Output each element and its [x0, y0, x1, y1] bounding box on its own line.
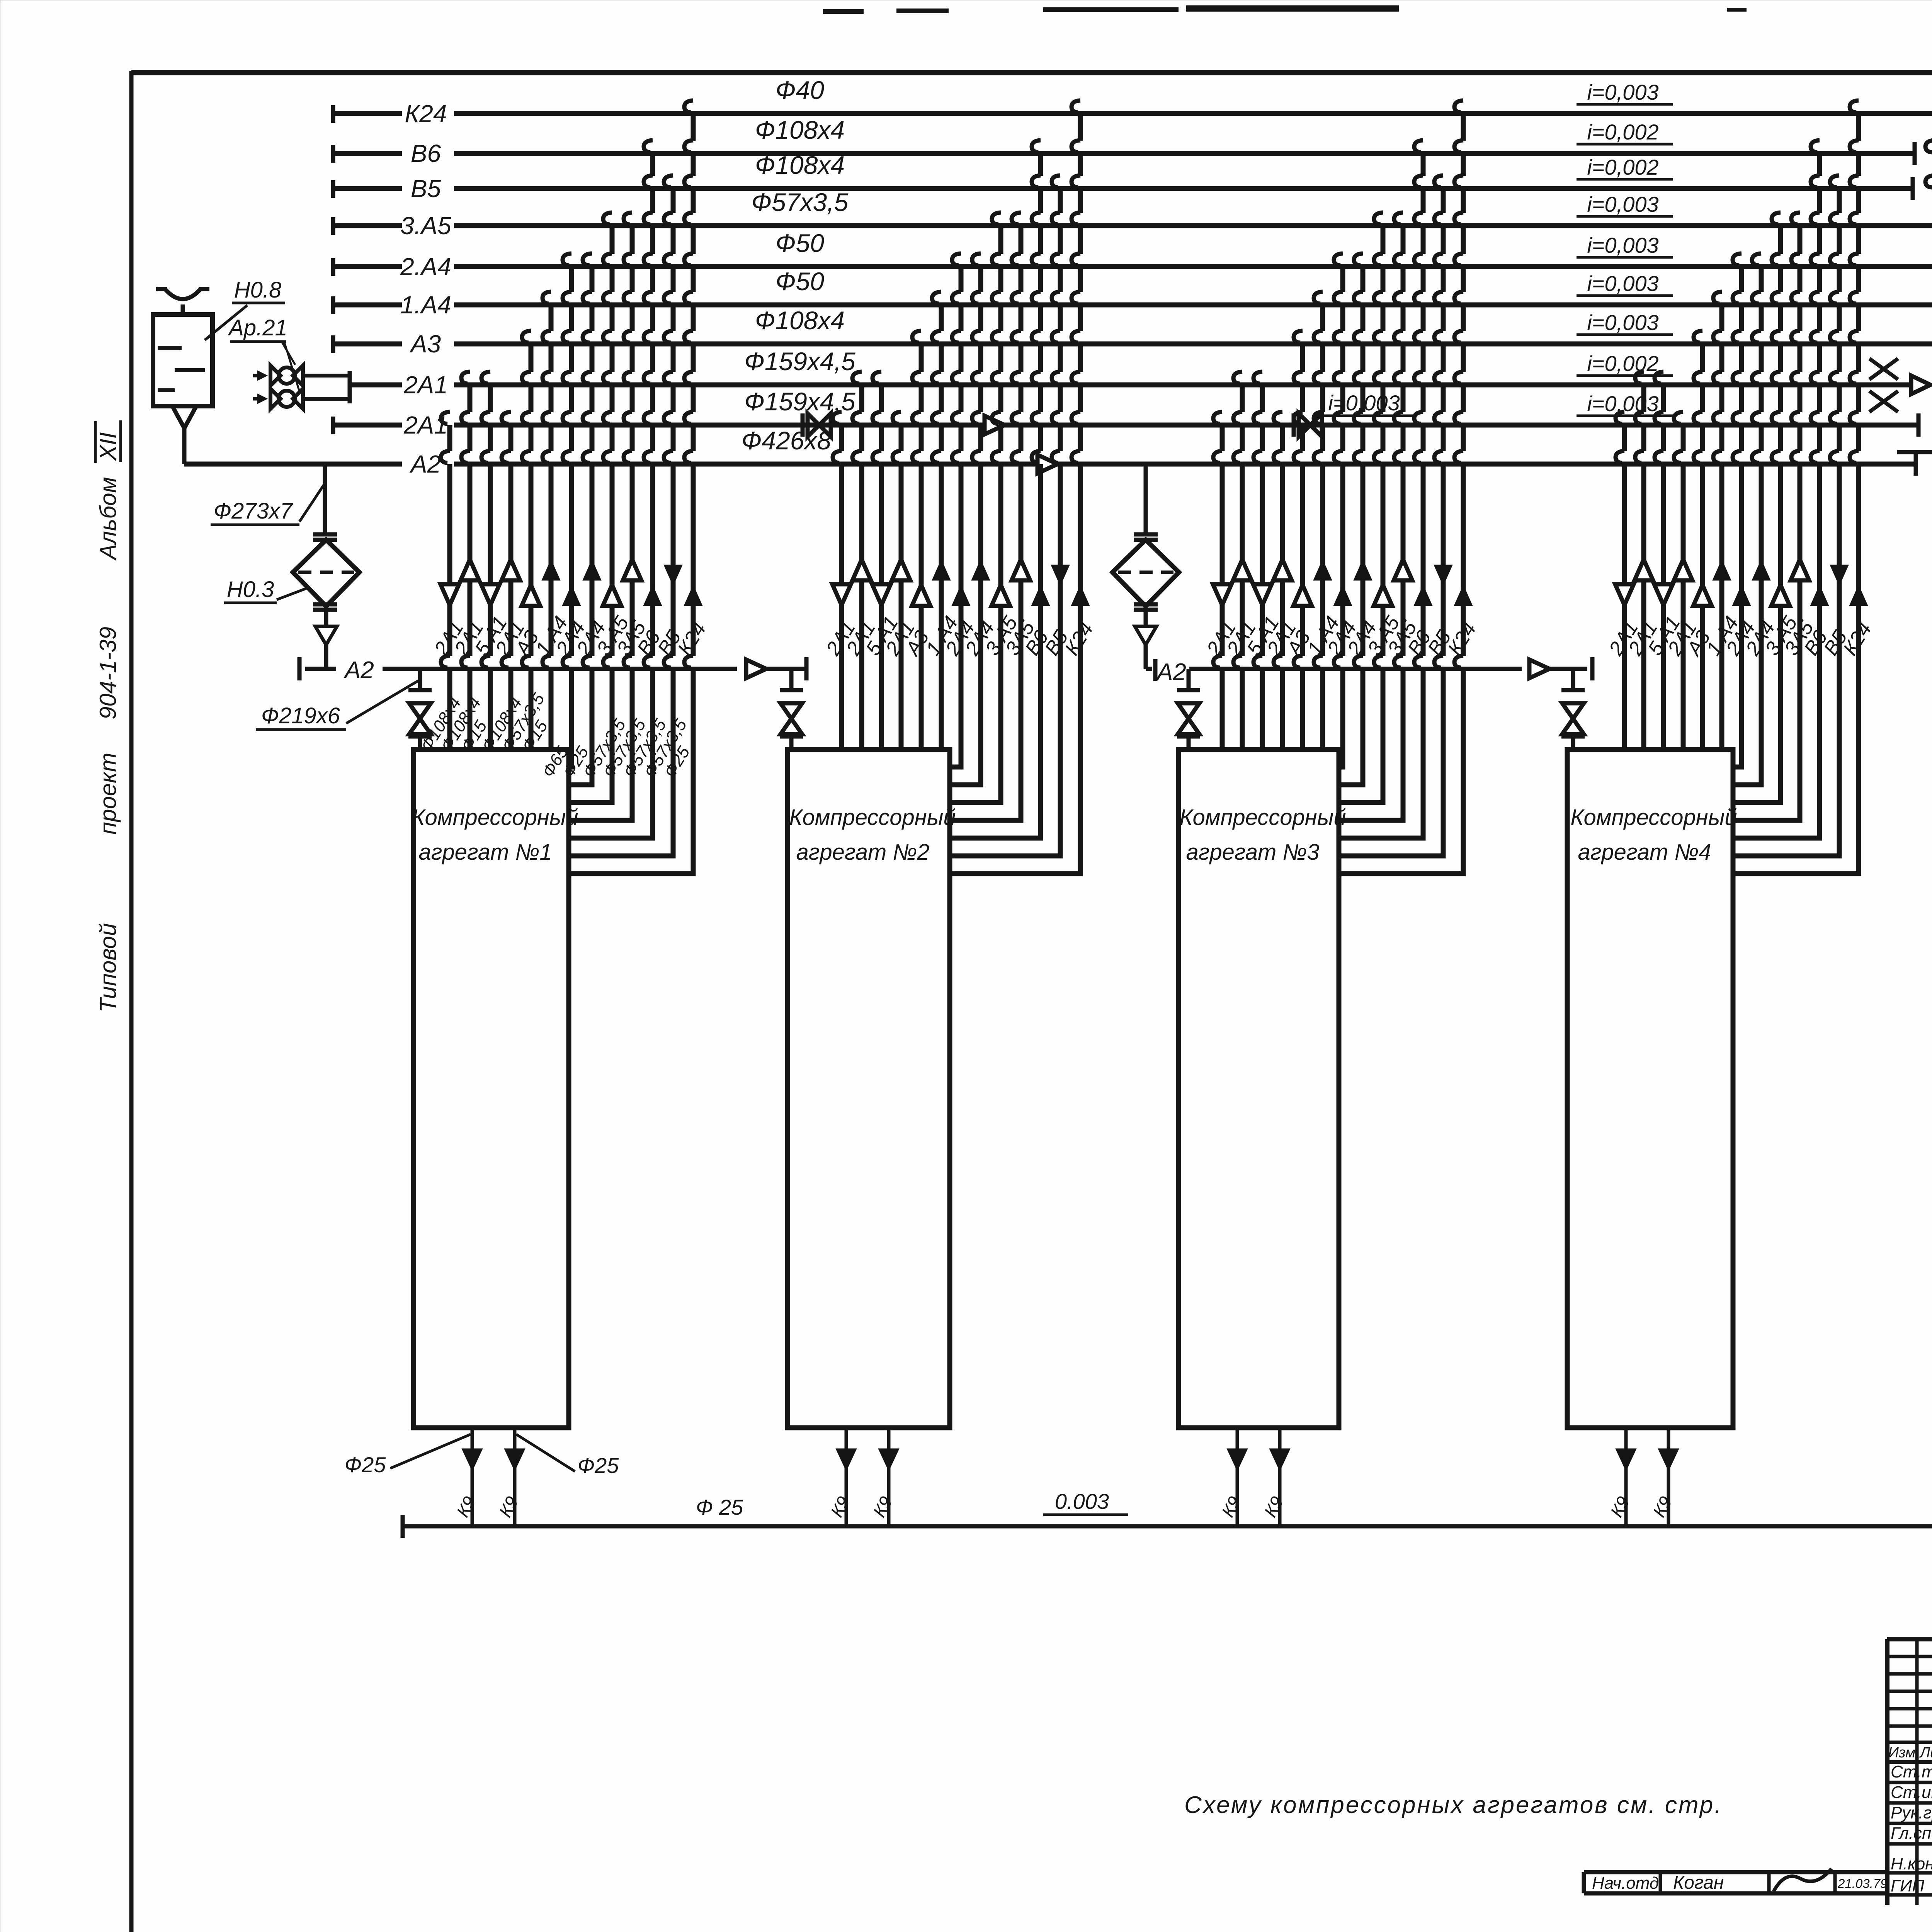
compressor unit block 4 — [1567, 750, 1733, 1428]
svg-text:А2: А2 — [1155, 659, 1186, 685]
flow arrow on В6 of unit 3 — [1414, 585, 1432, 606]
svg-text:0.003: 0.003 — [1055, 1489, 1109, 1514]
valve on 2.А1 lower line — [801, 413, 805, 437]
wire line 3А5 of unit 2 — [950, 226, 1021, 820]
wire line 3А5 of unit 3 — [1339, 226, 1403, 820]
svg-text:Ф108x4: Ф108x4 — [755, 306, 845, 335]
pipe 2А1 (row 8) — [350, 383, 402, 388]
svg-text:i=0,003: i=0,003 — [1587, 271, 1658, 296]
pipe В5 (row 3) — [331, 180, 335, 198]
svg-text:Типовой: Типовой — [95, 923, 121, 1012]
wire line 1.А4 of unit 3 — [1320, 305, 1325, 750]
drain valve under Н0.3 — [324, 610, 328, 626]
condensate drain main Ф25 — [401, 1515, 405, 1538]
2.А1 line end arrow with cross marks — [1911, 376, 1930, 394]
svg-text:2А1: 2А1 — [403, 371, 448, 399]
pipe А3 (row 7) — [331, 335, 335, 353]
svg-text:Компрессорный: Компрессорный — [1179, 805, 1346, 830]
pipe 3.А5 (row 4) — [331, 217, 335, 235]
svg-text:1.А4: 1.А4 — [400, 291, 451, 319]
wire line 2А4 of unit 4 — [1733, 267, 1761, 785]
svg-text:Изм: Изм — [1888, 1745, 1915, 1761]
wire line 2А1 of unit 2 — [899, 425, 904, 750]
К9 drain line of unit 3 — [1236, 1428, 1239, 1526]
drain arrow К9 — [836, 1449, 857, 1471]
flow arrow on 2А4 of unit 3 — [1333, 585, 1352, 606]
drain arrow К9 — [1269, 1449, 1290, 1471]
signature squiggle — [1774, 1869, 1832, 1891]
wire line 1.А4 of unit 1 — [549, 305, 554, 750]
svg-text:Ф108x4: Ф108x4 — [755, 151, 845, 179]
filter diamond before unit 3 — [1112, 540, 1179, 606]
svg-text:А2: А2 — [343, 657, 374, 684]
А2 line T-end — [1914, 452, 1918, 476]
wire line 1.А4 of unit 4 — [1719, 305, 1725, 750]
flow arrow on 2А1 of unit 1 — [440, 584, 459, 605]
drain arrow К9 — [1227, 1449, 1248, 1471]
wire line 3.А5 of unit 1 — [569, 226, 612, 803]
wire line 2А4 of unit 4 — [1733, 267, 1742, 767]
compressor unit block 3 — [1179, 750, 1339, 1428]
2.А1 lower line T-end — [1917, 413, 1921, 437]
wire line К24 of unit 4 — [1733, 114, 1859, 874]
В5 T-end — [1911, 177, 1915, 200]
К9 drain line of unit 1 — [471, 1428, 474, 1526]
wire line 5.А1 of unit 1 — [488, 385, 493, 750]
wire line В6 of unit 1 — [569, 153, 653, 838]
flow arrow on В6 of unit 2 — [1031, 585, 1050, 606]
wire line 3А5 of unit 4 — [1733, 226, 1800, 820]
flow arrow on 2А4 of unit 1 — [562, 585, 581, 606]
К9 drain line of unit 2 — [845, 1428, 848, 1526]
compressor unit block 2 — [787, 750, 950, 1428]
wire line 2А1 of unit 1 — [447, 425, 452, 750]
wire line К24 of unit 1 — [569, 114, 693, 874]
В6 T-end — [1913, 142, 1917, 165]
svg-text:Ф 25: Ф 25 — [696, 1495, 743, 1519]
svg-text:Компрессорный: Компрессорный — [789, 805, 956, 830]
title block outer frame — [1887, 1637, 1932, 1641]
svg-text:Ф108x4: Ф108x4 — [755, 116, 845, 144]
flow arrow on К24 of unit 1 — [684, 585, 702, 606]
drain arrow К9 — [1658, 1449, 1679, 1471]
pipe А2 (row 10) — [184, 462, 402, 467]
drain arrow К9 — [462, 1449, 483, 1471]
svg-text:агрегат №1: агрегат №1 — [418, 840, 552, 865]
svg-text:Ст.инж.: Ст.инж. — [1891, 1783, 1932, 1802]
svg-text:3.А5: 3.А5 — [400, 212, 451, 240]
svg-text:i=0,002: i=0,002 — [1587, 155, 1658, 179]
flow arrow on 3.А5 of unit 1 — [603, 585, 621, 606]
svg-text:К24: К24 — [405, 100, 447, 128]
К9 drain line of unit 4 — [1624, 1428, 1628, 1526]
wire line 2А1 of unit 4 — [1681, 425, 1686, 750]
second valve on 2.А1 lower line — [1292, 413, 1296, 437]
svg-text:А2: А2 — [409, 450, 441, 478]
drain arrow К9 — [504, 1449, 525, 1471]
flow arrow on 1.А4 of unit 3 — [1313, 560, 1332, 580]
flow arrow on А3 of unit 1 — [522, 585, 540, 606]
flow arrow on 2А1 of unit 2 — [852, 560, 871, 580]
svg-text:i=0,003: i=0,003 — [1587, 310, 1658, 335]
svg-text:агрегат №4: агрегат №4 — [1578, 840, 1711, 865]
svg-text:Ф40: Ф40 — [776, 76, 824, 104]
oil tank Н0.8 — [153, 315, 213, 406]
T-end of А2 header 2 — [1590, 657, 1595, 680]
svg-text:Ф426x8: Ф426x8 — [742, 426, 832, 455]
wire line 5.А1 of unit 4 — [1661, 385, 1666, 750]
wire line 3.А5 of unit 3 — [1339, 226, 1383, 803]
flow arrow on 2А4 of unit 2 — [952, 585, 970, 606]
flow arrow on 5.А1 of unit 3 — [1253, 584, 1272, 605]
wire line 2А4 of unit 3 — [1339, 267, 1363, 785]
svg-text:Альбом: Альбом — [95, 477, 121, 561]
scan noise dashes at top edge — [823, 9, 864, 14]
svg-text:Коган: Коган — [1673, 1872, 1724, 1893]
svg-text:i=0,003: i=0,003 — [1587, 192, 1658, 216]
flow arrow on 2А1 of unit 2 — [892, 560, 910, 580]
flow arrow on 2А4 of unit 2 — [971, 560, 990, 580]
flow arrow on В6 of unit 4 — [1810, 585, 1829, 606]
svg-text:Ф50: Ф50 — [776, 229, 824, 257]
wire line 2А1 of unit 2 — [839, 425, 844, 750]
svg-text:Ф273x7: Ф273x7 — [214, 498, 294, 524]
svg-text:Лист: Лист — [1919, 1745, 1932, 1761]
inlet valve of unit 3 — [1187, 669, 1191, 690]
pipe К24 (row 1) — [331, 105, 335, 123]
wire line В5 of unit 2 — [950, 189, 1060, 856]
svg-text:Ф57x3,5: Ф57x3,5 — [752, 188, 849, 216]
wire line В6 of unit 4 — [1733, 153, 1820, 838]
flow arrow on 2А1 of unit 2 — [832, 584, 851, 605]
flow arrow on 3А5 of unit 2 — [1012, 560, 1030, 580]
flow arrow on В6 of unit 1 — [643, 585, 662, 606]
wire line В6 of unit 3 — [1339, 153, 1423, 838]
oil line Ф15 — [1897, 447, 1932, 553]
svg-text:В6: В6 — [411, 139, 441, 167]
pipe 1.А4 (row 6) — [331, 296, 335, 314]
svg-text:2.А4: 2.А4 — [400, 253, 451, 281]
wire line К24 of unit 3 — [1339, 114, 1463, 874]
riser to filter before unit 3 — [1144, 464, 1148, 534]
flow arrow on А2 header 2 — [1529, 660, 1549, 678]
branch pipe Ф273x7 — [323, 464, 327, 534]
wire line 2А1 of unit 1 — [468, 385, 473, 750]
flow arrow on А3 of unit 2 — [912, 585, 930, 606]
svg-text:i=0,003: i=0,003 — [1587, 80, 1658, 104]
flow arrow on 5.А1 of unit 2 — [872, 584, 891, 605]
wire line 1.А4 of unit 2 — [939, 305, 944, 750]
wire line 2А4 of unit 1 — [569, 267, 592, 785]
wire line А3 of unit 3 — [1300, 344, 1305, 750]
wire line 2А1 of unit 4 — [1641, 385, 1646, 750]
wire line А3 of unit 4 — [1700, 344, 1705, 750]
К9 drain line of unit 2 — [887, 1428, 891, 1526]
А2 header line of units 3-4 — [1146, 667, 1152, 671]
flow arrow on А3 of unit 4 — [1693, 585, 1712, 606]
svg-text:Ф50: Ф50 — [776, 267, 824, 296]
svg-text:Ф25: Ф25 — [578, 1453, 619, 1478]
svg-text:Н0.8: Н0.8 — [234, 277, 282, 303]
wire line 3.А5 of unit 2 — [950, 226, 1001, 803]
compressor unit block 1 — [413, 750, 569, 1428]
title block header row — [1887, 1760, 1932, 1764]
svg-text:агрегат №3: агрегат №3 — [1186, 840, 1319, 865]
wire line 2А1 of unit 3 — [1280, 425, 1285, 750]
inlet valve of unit 2 — [789, 669, 794, 690]
flow arrow on 2А1 of unit 1 — [461, 560, 479, 580]
flow arrow on 2А4 of unit 3 — [1354, 560, 1372, 580]
svg-text:i=0,003: i=0,003 — [1587, 233, 1658, 257]
flow arrow on К24 of unit 4 — [1849, 585, 1868, 606]
svg-text:Ст.тех.: Ст.тех. — [1891, 1762, 1932, 1781]
svg-text:А3: А3 — [409, 330, 441, 358]
svg-text:Ф25: Ф25 — [345, 1452, 386, 1477]
flow arrow on 2А4 of unit 1 — [583, 560, 601, 580]
inlet valve of unit 1 — [418, 669, 422, 690]
pipe 2.А4 (row 5) — [331, 258, 335, 276]
svg-text:Ф219x6: Ф219x6 — [261, 703, 340, 728]
flow arrow on В5 of unit 4 — [1830, 565, 1849, 586]
T-end of А2 header 1 — [804, 657, 809, 680]
pipe 2А1 (row 9) — [331, 417, 335, 434]
title block revision grid — [1887, 1655, 1932, 1658]
wire line В5 of unit 1 — [569, 189, 673, 856]
svg-text:Ф159x4,5: Ф159x4,5 — [744, 347, 855, 376]
svg-text:i=0,002: i=0,002 — [1587, 120, 1658, 144]
wire line 2А1 of unit 3 — [1220, 425, 1225, 750]
wire line 2А1 of unit 2 — [859, 385, 864, 750]
wire line 3.А5 of unit 4 — [1733, 226, 1781, 803]
К9 drain line of unit 1 — [513, 1428, 517, 1526]
flow arrow on 1.А4 of unit 1 — [542, 560, 560, 580]
flow arrow on 3.А5 of unit 4 — [1771, 585, 1790, 606]
svg-text:XII: XII — [95, 432, 121, 461]
flow arrow on К24 of unit 2 — [1071, 585, 1090, 606]
svg-text:i=0,002: i=0,002 — [1587, 351, 1658, 376]
wire line 2А1 of unit 4 — [1622, 425, 1627, 750]
link lines Ар.21 to 2.А1 pipe — [303, 374, 350, 378]
flow arrow on 2А1 of unit 3 — [1213, 584, 1231, 605]
flow arrow on 1.А4 of unit 2 — [932, 560, 951, 580]
svg-text:21.03.79: 21.03.79 — [1837, 1876, 1887, 1891]
sheet border frame — [131, 70, 1932, 75]
flow arrow on 3.А5 of unit 2 — [992, 585, 1010, 606]
drain valve under filter 2 — [1144, 610, 1148, 626]
svg-text:Н0.3: Н0.3 — [227, 577, 274, 602]
wire line 2А4 of unit 1 — [569, 267, 571, 767]
flow arrow on 2А1 of unit 3 — [1273, 560, 1292, 580]
filter Н0.3 — [293, 540, 359, 606]
flow arrow on 3А5 of unit 3 — [1394, 560, 1412, 580]
flow arrow on 5.А1 of unit 4 — [1654, 584, 1673, 605]
flow arrow on К24 of unit 3 — [1454, 585, 1473, 606]
svg-text:Гл.спец.: Гл.спец. — [1891, 1824, 1932, 1843]
svg-text:В5: В5 — [411, 175, 441, 202]
flow arrow on 2А1 of unit 4 — [1674, 560, 1692, 580]
flow arrow on 2.А1 lower line — [985, 416, 1005, 434]
flow arrow on 2А4 of unit 4 — [1752, 560, 1770, 580]
wire line А3 of unit 2 — [919, 344, 924, 750]
wire line В6 of unit 2 — [950, 153, 1041, 838]
wire line 2А4 of unit 3 — [1339, 267, 1343, 767]
svg-text:Рук.гр.: Рук.гр. — [1891, 1803, 1932, 1822]
flow arrow on 3.А5 of unit 3 — [1374, 585, 1392, 606]
flow arrow on А2 header 1 — [746, 660, 766, 678]
flow arrow on А2 line — [1037, 455, 1058, 473]
wire line В5 of unit 4 — [1733, 189, 1839, 856]
svg-text:Компрессорный: Компрессорный — [412, 805, 578, 830]
cone outlet of Н0.8 — [172, 406, 196, 428]
К9 drain line of unit 3 — [1278, 1428, 1282, 1526]
pipe В6 (row 2) — [331, 145, 335, 163]
wire line 2А1 of unit 3 — [1240, 385, 1245, 750]
flow arrow on 2А1 of unit 4 — [1634, 560, 1653, 580]
svg-text:Нач.отд: Нач.отд — [1592, 1874, 1659, 1893]
inlet valve of unit 4 — [1571, 669, 1575, 690]
flow arrow on В5 of unit 1 — [664, 565, 682, 586]
approval strip — [1584, 1870, 1887, 1874]
drain arrow К9 — [878, 1449, 899, 1471]
К9 drain line of unit 4 — [1667, 1428, 1670, 1526]
wire line 2А4 of unit 2 — [950, 267, 961, 767]
svg-text:Ар.21: Ар.21 — [228, 315, 287, 340]
flow arrow on 3А5 of unit 1 — [623, 560, 641, 580]
three-way valve Ар.21 #2 — [270, 389, 281, 409]
flow arrow on 2А4 of unit 4 — [1732, 585, 1751, 606]
svg-text:904-1-39: 904-1-39 — [95, 627, 121, 719]
funnel of Н0.8 — [165, 289, 201, 299]
wire line 5.А1 of unit 2 — [879, 385, 884, 750]
svg-text:Схему компрессорных а: Схему компрессорных агрегатов см. стр. — [1184, 1792, 1723, 1818]
svg-text:Компрессорный: Компрессорный — [1570, 805, 1737, 830]
flow arrow on В5 of unit 3 — [1434, 565, 1452, 586]
svg-text:агрегат №2: агрегат №2 — [796, 840, 929, 865]
wire line 3А5 of unit 1 — [569, 226, 632, 820]
wire line 5.А1 of unit 3 — [1260, 385, 1265, 750]
flow arrow on В5 of unit 2 — [1051, 565, 1070, 586]
wire line А3 of unit 1 — [529, 344, 534, 750]
flow arrow on 3А5 of unit 4 — [1791, 560, 1809, 580]
svg-text:проект: проект — [95, 753, 121, 835]
svg-text:Н.контр.: Н.контр. — [1891, 1854, 1932, 1873]
drain arrow К9 — [1616, 1449, 1636, 1471]
flow arrow on 2А1 of unit 1 — [502, 560, 520, 580]
А2 header line of units 1-2 — [298, 657, 302, 680]
wire line 2А4 of unit 2 — [950, 267, 981, 785]
flow arrow on 2А1 of unit 4 — [1615, 584, 1634, 605]
flow arrow on 2А1 of unit 3 — [1233, 560, 1252, 580]
wire line 2А1 of unit 1 — [509, 425, 514, 750]
flow arrow on 1.А4 of unit 4 — [1713, 560, 1731, 580]
flow arrow on 5.А1 of unit 1 — [481, 584, 500, 605]
wire line В5 of unit 3 — [1339, 189, 1443, 856]
flow arrow on А3 of unit 3 — [1293, 585, 1312, 606]
wire line К24 of unit 2 — [950, 114, 1080, 874]
three-way valve Ар.21 #1 — [270, 366, 281, 386]
svg-text:ГИП: ГИП — [1891, 1876, 1924, 1895]
